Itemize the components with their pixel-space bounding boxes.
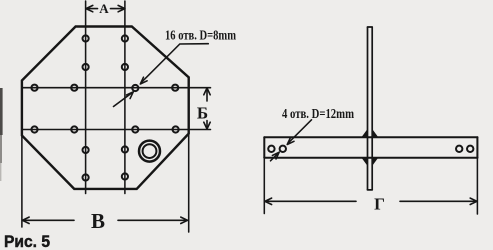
scan streak left edge <box>0 88 3 135</box>
caption Ris. 5 <box>4 232 50 250</box>
weld fillets <box>362 129 378 165</box>
large bushing ring <box>139 141 160 162</box>
hole c2r4 <box>122 173 128 179</box>
dimension G (Г) line <box>265 198 477 204</box>
svg-text:Г: Г <box>374 194 385 213</box>
hole row2 d <box>173 126 179 132</box>
dimension V (В) line <box>22 217 187 223</box>
hole c1r4 <box>83 174 89 180</box>
hole row2 a <box>31 126 37 132</box>
hole row2 c <box>132 126 138 132</box>
dimension A line <box>86 5 125 11</box>
dimension B (Б) line <box>204 88 210 129</box>
label G (Г) <box>374 194 385 213</box>
hole row1 a <box>31 85 37 91</box>
hole row2 b <box>71 126 77 132</box>
centerline row 1 <box>22 87 211 89</box>
svg-text:4 отв. D=12mm: 4 отв. D=12mm <box>282 106 355 121</box>
svg-text:В: В <box>91 209 105 233</box>
hole c2r2 <box>122 64 128 70</box>
octagonal plate outline <box>22 27 189 189</box>
centerline row 2 <box>22 129 211 131</box>
vertical plate <box>368 27 373 190</box>
horizontal plate <box>264 137 477 158</box>
hole c1r3 <box>83 147 89 153</box>
right extension line <box>188 134 190 232</box>
label A <box>99 1 109 16</box>
label 4 otv D=12mm <box>282 106 355 121</box>
right extension of G <box>476 158 478 214</box>
hole row1 b <box>71 85 77 91</box>
hole right 1 <box>456 146 462 152</box>
svg-text:Б: Б <box>197 103 208 122</box>
svg-text:Рис. 5: Рис. 5 <box>4 232 50 250</box>
hole row1 d <box>172 85 178 91</box>
label 16 otv D=8mm <box>165 27 237 42</box>
label B (Б) <box>197 103 208 122</box>
leader 4 holes <box>271 120 312 161</box>
leader 16 holes <box>114 44 209 107</box>
hole c2r3 <box>122 146 128 152</box>
hole right 2 <box>467 146 473 152</box>
left extension line <box>21 136 23 228</box>
left extension of G <box>263 158 265 214</box>
label V (В) <box>91 209 105 233</box>
svg-text:А: А <box>99 1 109 16</box>
hole c1r2 <box>83 64 89 70</box>
svg-text:16 отв. D=8mm: 16 отв. D=8mm <box>165 27 237 42</box>
hole left 2 (target of leader) <box>280 146 286 152</box>
hole c1r1 <box>83 35 89 41</box>
hole left 1 <box>268 146 274 152</box>
centerline column 2 <box>124 1 126 194</box>
hole c2r1 <box>122 35 128 41</box>
centerline column 1 <box>85 1 87 194</box>
hole row1 c (target of leader) <box>132 85 138 91</box>
